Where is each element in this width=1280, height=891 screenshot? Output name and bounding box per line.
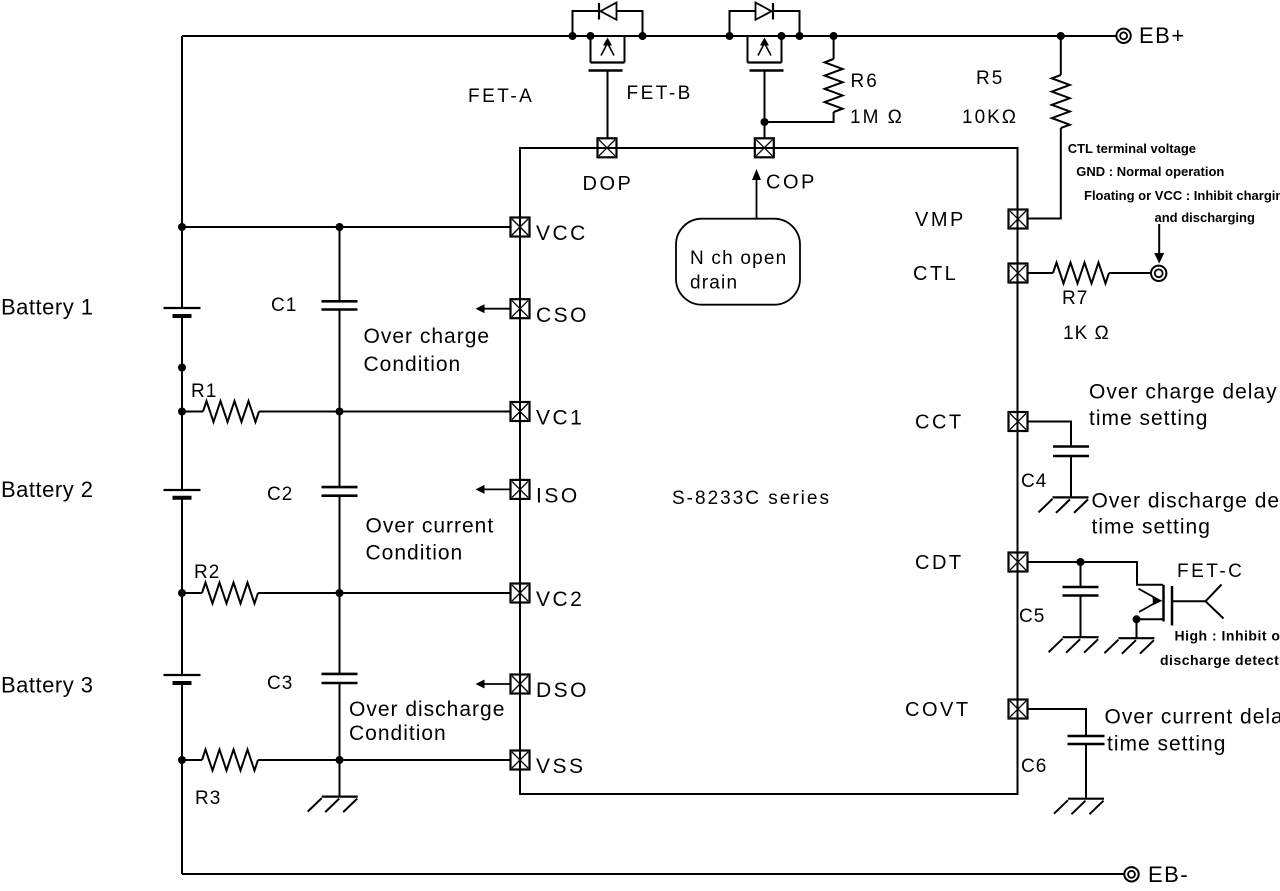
svg-text:Over discharge: Over discharge [349,698,505,721]
svg-text:N ch open: N ch open [690,248,787,269]
pin DOP [598,138,617,157]
resistor R1 [203,401,259,422]
svg-text:S-8233C series: S-8233C series [672,488,831,509]
junction dot CDT-C5 [1077,558,1085,566]
wire FET-A gate to DOP [607,71,609,139]
capacitor C2 [322,486,358,489]
svg-text:CCT: CCT [915,412,964,434]
resistor R7 [1053,263,1109,284]
svg-text:R3: R3 [195,788,221,809]
wire FET-B gate to COP [764,71,766,139]
junction dot FET-C source [1133,615,1141,623]
wire CCT to C4 [1028,422,1072,447]
svg-text:1M Ω: 1M Ω [850,107,904,128]
wire CDT line [1028,562,1164,585]
pin ISO [511,480,530,499]
resistor R6 [825,59,843,112]
svg-text:Over current: Over current [366,515,495,538]
svg-text:10KΩ: 10KΩ [962,107,1018,128]
svg-text:Condition: Condition [366,542,464,565]
ground below FET-C [1118,637,1154,639]
capacitor C5 [1063,586,1099,589]
svg-text:R5: R5 [976,68,1004,89]
capacitor column wire [339,227,341,301]
svg-text:C2: C2 [267,484,293,505]
svg-text:VC2: VC2 [536,588,584,611]
arrow from CTL note to terminal [1158,224,1160,255]
svg-text:CDT: CDT [915,552,964,574]
pin CCT [1009,412,1028,431]
IC body S-8233C series [520,148,1018,794]
ground below C5 [1063,636,1099,638]
svg-text:COVT: COVT [905,699,971,721]
svg-text:VSS: VSS [536,755,586,778]
junction dot C1 top [336,223,344,231]
ground below C3 [322,795,358,797]
body diode of FET at x=607.5 [573,3,643,37]
wire VC1 line right of R1 [259,411,511,413]
battery B3 [164,674,201,676]
output arrow ISO [482,488,511,490]
junction dot rail-R6 [830,32,838,40]
wire left rail (battery stack) [181,36,183,307]
svg-text:Over charge delay: Over charge delay [1089,381,1278,404]
pin VCC [511,218,530,237]
junction dot rail mid battery1 [178,364,186,372]
capacitor C3 [322,673,358,676]
junction dots FET-A on rail [569,32,577,40]
ground below C6 [1068,798,1104,800]
svg-text:DSO: DSO [536,679,589,702]
svg-text:time setting: time setting [1107,733,1226,756]
svg-text:Floating or VCC : Inhibit char: Floating or VCC : Inhibit charging [1084,188,1280,203]
terminal EB+ [1116,29,1130,43]
capacitor C4 [1053,445,1089,448]
svg-text:EB-: EB- [1148,862,1189,887]
junction dot rail-R2 [178,589,186,597]
battery B1 [164,307,201,309]
svg-text:drain: drain [690,273,738,294]
wire C4 to ground [1070,456,1072,497]
svg-text:C3: C3 [267,673,293,694]
pin CDT [1009,553,1028,572]
svg-text:C5: C5 [1019,606,1045,627]
junction dot rail-R5 [1057,32,1065,40]
wire C6 to ground [1085,744,1087,799]
wire CTL to R7 [1028,272,1054,274]
junction dot rail-R3 [178,756,186,764]
wire R5 bottom to VMP pin [1028,128,1061,219]
svg-text:FET-C: FET-C [1177,561,1244,582]
svg-text:VC1: VC1 [536,407,584,430]
arrow from bubble to COP pin [756,180,758,219]
MOSFET channel/gate at x=607.5 [589,36,625,71]
wire rail to R5 [1060,36,1062,75]
svg-text:discharge detection: discharge detection [1160,652,1280,668]
wire FET-C source to ground [1136,619,1138,638]
junction dot C1 bottom [336,408,344,416]
wire VSS line right of R3 [258,759,511,761]
pin COVT [1009,700,1028,719]
svg-text:R2: R2 [194,562,220,583]
capacitor C1 [322,300,358,303]
svg-text:R1: R1 [191,381,217,402]
svg-text:Condition: Condition [364,353,462,376]
pin CTL [1009,264,1028,283]
terminal CTL input [1151,266,1166,281]
svg-text:VCC: VCC [536,222,588,245]
pin VMP [1009,210,1028,229]
MOSFET channel/gate at x=764.5 [748,36,784,71]
svg-text:FET-A: FET-A [468,86,534,107]
svg-text:FET-B: FET-B [627,83,693,104]
svg-text:GND : Normal operation: GND : Normal operation [1076,164,1224,179]
wire top rail EB+ [182,35,1117,37]
svg-text:ISO: ISO [536,485,580,508]
svg-text:and discharging: and discharging [1155,210,1255,225]
body diode of FET at x=764.5 [730,3,800,37]
svg-text:Condition: Condition [349,722,447,745]
svg-text:High : Inhibit over: High : Inhibit over [1175,628,1280,644]
wire R2 to rail [182,592,202,594]
pin COP [755,138,774,157]
junction dot rail-R1 [178,408,186,416]
output arrow CSO [482,308,511,310]
pin VSS [511,751,530,770]
svg-text:CSO: CSO [536,304,589,327]
svg-text:C6: C6 [1021,756,1047,777]
pin CSO [511,299,530,318]
output arrow DSO [482,683,511,685]
wire VC2 line right of R2 [258,592,511,594]
svg-text:time setting: time setting [1092,516,1211,539]
battery B2 [164,489,201,491]
svg-text:Over current delay: Over current delay [1105,706,1280,729]
terminal EB- [1124,867,1138,881]
wire C5 top [1080,562,1082,587]
svg-text:R7: R7 [1062,288,1088,309]
capacitor C6 [1068,735,1105,738]
svg-text:R6: R6 [851,71,879,92]
resistor R2 [202,583,258,604]
pin DSO [511,675,530,694]
svg-text:CTL terminal voltage: CTL terminal voltage [1068,141,1196,156]
wire bottom rail EB- [182,873,1124,875]
svg-text:C1: C1 [271,295,297,316]
svg-text:COP: COP [766,172,817,194]
svg-text:Battery 1: Battery 1 [1,295,94,320]
pin VC1 [511,402,530,421]
svg-text:Over charge: Over charge [364,325,491,348]
junction dot rail-VCC [178,223,186,231]
resistor R3 [202,750,258,771]
N ch open drain callout bubble [676,219,800,305]
ground below C4 [1053,496,1089,498]
svg-text:Over discharge delay: Over discharge delay [1092,490,1280,513]
wire COVT to C6 [1028,709,1087,736]
svg-text:time setting: time setting [1089,407,1208,430]
wire R3 to rail [182,759,202,761]
svg-text:DOP: DOP [583,173,634,195]
svg-text:VMP: VMP [915,209,966,231]
svg-text:1K Ω: 1K Ω [1063,323,1110,344]
junction dot R6-COP [761,118,769,126]
svg-text:Battery 2: Battery 2 [1,477,94,502]
svg-text:Battery 3: Battery 3 [1,673,94,698]
junction dot C3 bottom [336,756,344,764]
pin VC2 [511,584,530,603]
resistor R5 [1052,75,1070,128]
wire rail to R6 [833,36,835,59]
wire R6 bottom to COP gate wire [765,112,834,122]
wire R7 to CTL terminal [1109,272,1151,274]
transistor FET-C [1137,585,1224,626]
svg-text:CTL: CTL [913,263,958,285]
junction dots FET-B on rail [726,32,734,40]
svg-text:EB+: EB+ [1139,23,1186,48]
wire C5 to ground [1080,596,1082,638]
wire VCC line [182,226,511,228]
junction dot C2 bottom [336,589,344,597]
svg-text:C4: C4 [1021,471,1047,492]
wire R1 to rail [182,411,203,413]
